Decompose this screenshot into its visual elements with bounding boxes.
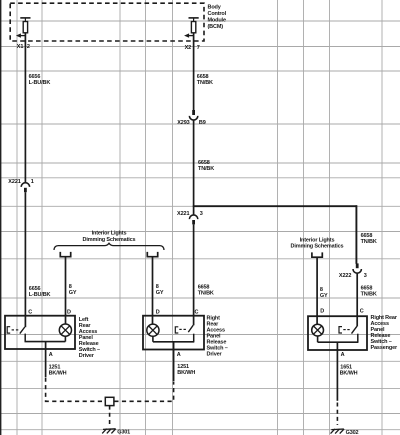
svg-text:C: C <box>28 309 32 315</box>
svg-text:B9: B9 <box>199 120 206 126</box>
svg-text:Control: Control <box>208 11 227 17</box>
splice S301 <box>105 397 114 405</box>
actuator dashes (middle switch) <box>179 328 181 330</box>
wire label 6658 TN/BK (right lower) <box>361 285 377 297</box>
right switch S3 box outline <box>308 316 367 350</box>
switch blade (left switch) <box>20 327 25 334</box>
wire label 1251 BK/WH (middle) <box>177 364 195 376</box>
middle switch S2 box outline <box>143 316 204 350</box>
wire label 6658 TN/BK (middle) <box>198 160 214 172</box>
svg-text:6658: 6658 <box>361 285 373 291</box>
wire 6658 TN/BK right branch down to X222 <box>355 205 357 263</box>
wire D into left lamp <box>65 316 67 324</box>
svg-text:TN/BK: TN/BK <box>198 166 214 172</box>
svg-text:6658: 6658 <box>198 160 210 166</box>
svg-text:6656: 6656 <box>29 74 41 80</box>
wire label 1651 BK/WH (right) <box>340 365 358 377</box>
svg-text:L-BU/BK: L-BU/BK <box>29 80 51 86</box>
svg-text:C: C <box>360 309 364 315</box>
ground G301 <box>102 429 116 434</box>
Right Rear Access Panel Release Switch - Driver label <box>207 316 228 358</box>
wire label 8 GY (middle) <box>156 284 164 296</box>
dashed ground distribution wire (right segment) <box>114 382 173 402</box>
svg-text:A: A <box>177 352 181 358</box>
wire label 6658 TN/BK (above middle switch) <box>198 285 214 297</box>
wire label 6656 L-BU/BK (lower) <box>29 286 51 298</box>
wire 8 GY to middle switch D <box>152 257 154 316</box>
svg-text:GY: GY <box>320 293 328 299</box>
wire label 1251 BK/WH (left) <box>49 365 67 377</box>
fixed contact (right switch) <box>357 334 359 343</box>
wire C into middle switch <box>193 316 195 326</box>
wire 8 GY to left switch D <box>65 257 67 316</box>
svg-text:BK/WH: BK/WH <box>340 371 358 377</box>
wire 6658 TN/BK from X293 to junction <box>193 120 195 215</box>
switch actuator bracket (right switch) <box>339 327 342 333</box>
wire 6658 continues to right switch C <box>356 273 358 316</box>
wire 6658 continues to middle switch C <box>193 224 195 316</box>
connector pin label X2 7 <box>185 45 200 51</box>
svg-text:6658: 6658 <box>197 74 209 80</box>
fixed contact (left switch) <box>24 334 26 342</box>
inline connector X222 pin 3 <box>356 263 359 268</box>
Body Control Module (BCM) dashed outline <box>10 3 204 41</box>
internal wire (middle switch) <box>153 341 194 343</box>
switch actuator bracket (left switch) <box>7 327 10 333</box>
svg-text:D: D <box>320 309 324 315</box>
wire label 8 GY (left) <box>69 284 77 296</box>
svg-text:(BCM): (BCM) <box>208 24 224 30</box>
svg-text:2: 2 <box>27 44 30 50</box>
svg-text:X1: X1 <box>17 44 24 50</box>
svg-text:X221: X221 <box>8 179 20 185</box>
wire A from middle switch <box>173 342 175 381</box>
svg-text:Driver: Driver <box>79 353 95 359</box>
internal wire (right switch) <box>318 341 359 343</box>
Interior Lights Dimming Schematics label (left) <box>83 231 136 243</box>
svg-text:X293: X293 <box>177 120 189 126</box>
svg-text:TN/BK: TN/BK <box>361 291 377 297</box>
Right Rear Access Panel Release Switch - Passenger label <box>371 315 398 351</box>
BCM output driver (right, to X2 pin 7) <box>184 18 199 38</box>
dashed ground distribution wire (left drop) <box>46 378 105 402</box>
svg-text:GY: GY <box>156 290 164 296</box>
actuator dashes (right switch) <box>343 329 345 331</box>
svg-text:TN/BK: TN/BK <box>198 291 214 297</box>
wire A from left switch <box>45 342 47 377</box>
switch actuator bracket (middle switch) <box>175 327 178 333</box>
svg-text:C: C <box>195 309 199 315</box>
svg-text:1: 1 <box>31 179 34 185</box>
svg-text:Driver: Driver <box>207 352 223 358</box>
svg-text:X222: X222 <box>339 273 351 279</box>
svg-text:7: 7 <box>197 45 200 51</box>
svg-text:3: 3 <box>200 211 203 217</box>
svg-text:A: A <box>341 352 345 358</box>
svg-text:Interior Lights: Interior Lights <box>300 238 335 244</box>
svg-text:Interior Lights: Interior Lights <box>92 231 127 237</box>
inline connector X221 pin 1 <box>21 183 29 187</box>
illumination lamp (left switch) <box>59 324 71 336</box>
svg-text:G302: G302 <box>346 430 359 435</box>
Left Rear Access Panel Release Switch - Driver label <box>79 317 100 359</box>
illumination lamp (middle switch) <box>147 324 159 336</box>
connector pin label X1 2 <box>17 44 30 50</box>
Body Control Module (BCM) label <box>208 5 227 31</box>
wire A from right switch <box>336 342 338 401</box>
off-page pointer (left, wire to left switch D) <box>60 252 70 257</box>
svg-text:X2: X2 <box>185 45 192 51</box>
off-page pointer (second, wire to middle switch D) <box>147 252 157 257</box>
left switch S1 box outline <box>5 316 75 349</box>
BCM output driver (left, to X1 pin 2) <box>16 18 31 38</box>
wire label 8 GY (right) <box>320 287 328 299</box>
svg-text:D: D <box>156 309 160 315</box>
off-page pointer (right, wire to right switch D) <box>312 252 322 257</box>
Interior Lights Dimming Schematics label (right) <box>291 238 344 250</box>
inline connector X293 pin B9 <box>192 110 195 115</box>
wire 6656 continues to left switch C <box>24 192 26 316</box>
wire 6656 L-BU/BK from BCM X1-2 down to X221 <box>24 33 26 183</box>
svg-text:L-BU/BK: L-BU/BK <box>29 292 51 298</box>
switch blade (right switch) <box>352 326 357 333</box>
wire D into right lamp <box>316 316 318 324</box>
svg-text:Body: Body <box>208 5 222 11</box>
wire branch to right at junction <box>193 205 357 207</box>
ground G302 <box>331 429 345 434</box>
wire label 6658 TN/BK (upper) <box>197 74 213 86</box>
svg-text:Passenger: Passenger <box>371 345 398 351</box>
svg-text:GY: GY <box>69 290 77 296</box>
fixed contact (middle switch) <box>193 334 195 342</box>
wire 6658 TN/BK from BCM X2-7 down to X293 <box>193 33 195 111</box>
dashed wire from right switch A to G302 <box>336 403 338 426</box>
svg-text:Dimming Schematics: Dimming Schematics <box>291 244 344 250</box>
wire label 6656 L-BU/BK (upper) <box>29 74 51 86</box>
svg-text:BK/WH: BK/WH <box>177 370 195 376</box>
svg-text:X221: X221 <box>177 211 189 217</box>
dashed wire from splice to G301 <box>109 406 111 427</box>
svg-text:G301: G301 <box>117 430 130 435</box>
wire C into left switch <box>24 316 26 328</box>
svg-text:BK/WH: BK/WH <box>49 370 67 376</box>
actuator dashes (left switch) <box>12 329 14 331</box>
svg-text:3: 3 <box>364 273 367 279</box>
internal wire to lamp (left switch) <box>25 341 66 343</box>
wire C into right switch <box>356 316 358 326</box>
svg-text:A: A <box>49 352 53 358</box>
switch blade (middle switch) <box>188 325 193 332</box>
svg-text:TN/BK: TN/BK <box>361 239 377 245</box>
wire D into middle lamp <box>152 316 154 325</box>
brace under left dimming label <box>54 243 164 250</box>
wire label 6658 TN/BK (right upper) <box>361 233 377 245</box>
illumination lamp (right switch) <box>312 324 324 336</box>
svg-text:Module: Module <box>208 18 226 24</box>
svg-text:TN/BK: TN/BK <box>197 80 213 86</box>
inline connector X221 pin 3 <box>189 215 197 219</box>
svg-text:D: D <box>67 309 71 315</box>
wire 8 GY to right switch D <box>316 257 318 316</box>
